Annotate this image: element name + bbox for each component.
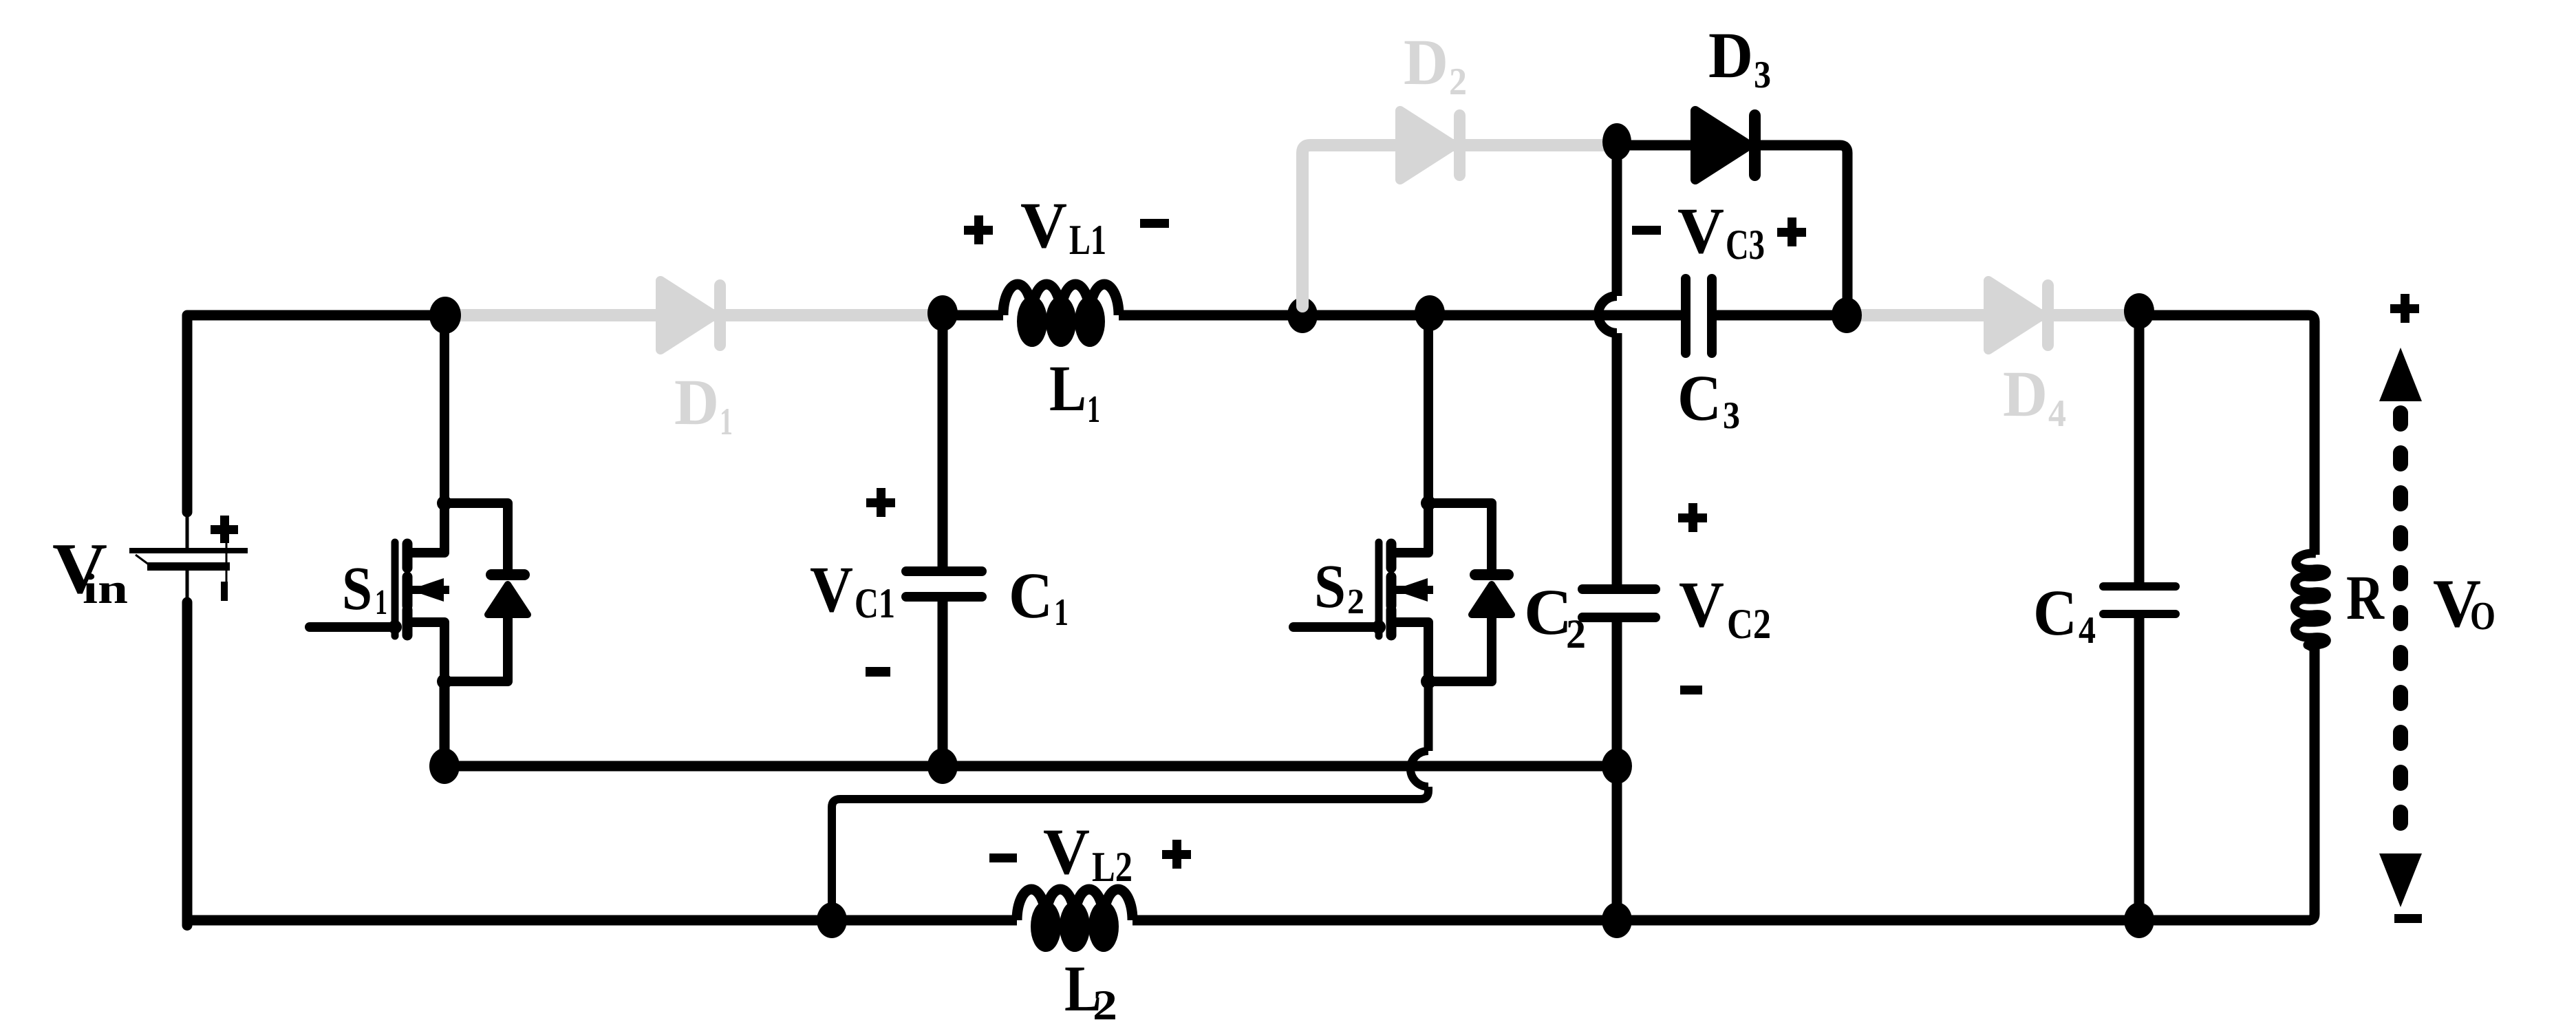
node C4-bottom junction dot [2124,902,2154,938]
wire C1 bottom to middle rail [938,602,948,766]
node S1-source junction dot [429,748,460,784]
label C3 [1677,361,1740,437]
capacitor C1 plate top [901,566,987,576]
battery Vin plate + (long thin) [129,548,248,553]
svg-text:1: 1 [720,401,733,443]
wire node C to node D [1302,310,1430,321]
svg-text:L2: L2 [1092,844,1133,891]
svg-text:2: 2 [1449,61,1467,103]
inductor L1 [1003,284,1119,343]
label L1 [1049,352,1100,431]
svg-text:C: C [1009,559,1053,632]
label D2 [1404,25,1467,103]
wire left vertical below battery [182,602,193,926]
wire middle rail [444,761,1617,772]
capacitor C2 plate top [1578,584,1660,594]
wire bottom rail left segment [182,915,833,926]
wire C2 bottom to middle rail [1612,622,1622,766]
wire R branch bottom corner [2308,647,2315,920]
transistor S1 [310,315,530,689]
label VL1 [964,189,1169,264]
svg-text:D: D [1708,19,1753,92]
node A junction dot [429,297,461,334]
inductor L2 [1017,889,1133,948]
svg-text:C: C [2033,576,2077,649]
node C2-leg bottom-rail junction dot [1602,902,1632,938]
svg-text:C: C [1677,361,1721,434]
battery Vin plate - (short thick) [147,562,230,571]
battery + sign [211,516,238,543]
crossover hop over middle rail [1410,751,1428,787]
wire bottom rail right [1617,915,2310,926]
label S1 [342,555,387,623]
label S2 [1314,553,1364,622]
node F junction dot [2124,293,2154,329]
Vo arrow head top [2379,348,2422,401]
battery - sign [221,582,228,601]
svg-text:1: 1 [1054,591,1069,634]
label C1 minus [866,667,890,677]
node C junction dot [1287,297,1318,333]
resistor R [2295,553,2326,648]
label Vin [52,528,128,613]
wire node D to C3 [1430,310,1681,321]
Vo arrow head bottom [2379,853,2422,907]
transistor S2 [1294,315,1514,689]
wire output top [2139,315,2315,555]
label C1 [1009,559,1069,634]
crossover hop over top rail [1598,296,1617,333]
wire C3 right to node E [1717,310,1847,321]
label D4 [2003,357,2066,435]
diode D3 [1695,109,1761,181]
battery Vin thin leads [136,511,226,604]
svg-text:2: 2 [1347,582,1364,622]
wire D1 gray [445,309,943,321]
svg-text:V: V [1020,189,1067,262]
wire top-left from battery to node A [187,315,445,512]
svg-text:O: O [2470,593,2495,638]
label C1 plus [866,488,895,517]
capacitor C1 plate bottom [901,592,987,602]
svg-text:L: L [1049,352,1086,425]
node C1-bottom junction dot [927,748,958,784]
svg-text:C1: C1 [855,580,895,627]
capacitor C3 plate right [1707,274,1717,358]
wire D3 branch [1617,145,1847,315]
wire D4 gray [1847,309,2139,321]
label VL2 [989,815,1191,891]
label Vo [2433,565,2495,641]
svg-text:D: D [1404,25,1448,98]
label C4 [2033,576,2096,652]
label D3 [1708,19,1771,96]
node B junction dot [927,295,958,331]
svg-text:V: V [1679,568,1724,641]
node D junction dot [1415,295,1445,331]
diode D2 [1400,109,1466,181]
node C2-bottom junction dot [1602,748,1632,784]
label VC3 [1632,194,1806,268]
wire bottom rail mid-right [1133,915,1617,926]
node D2-D3 junction dot [1602,123,1631,160]
svg-text:V: V [810,553,853,626]
svg-text:2: 2 [1566,611,1586,657]
label D1 [674,365,733,443]
svg-text:2: 2 [1093,982,1117,1029]
svg-text:4: 4 [2048,392,2066,435]
wire C4 bottom leg [2134,618,2145,920]
svg-text:S: S [1314,553,1346,621]
svg-text:3: 3 [1723,394,1740,437]
capacitor C2 plate bottom [1578,613,1660,622]
label Vo minus [2394,914,2422,923]
wire node B to L1 [943,310,1003,321]
svg-text:L1: L1 [1069,217,1106,264]
svg-text:C: C [1524,575,1572,648]
label VC2 [1678,503,1771,694]
node L2-left junction dot [817,902,847,938]
svg-text:C3: C3 [1726,222,1765,268]
wire D2 gray riser [1302,145,1617,306]
wire hop to C2 [1612,333,1622,585]
node E junction dot [1832,297,1862,333]
capacitor C4 plate bottom [2099,610,2180,618]
label L2 [1064,952,1117,1029]
diode D4 [1988,279,2054,351]
capacitor C4 plate top [2099,582,2180,591]
svg-text:C2: C2 [1727,601,1771,648]
svg-text:1: 1 [375,583,387,622]
svg-text:V: V [1677,194,1724,267]
wire S2 return to bottom rail [832,787,1428,920]
svg-text:3: 3 [1754,54,1771,96]
wire S2 source down to hop [1424,681,1433,751]
svg-text:1: 1 [1087,388,1100,431]
wire D2D3 node down to hop [1612,142,1622,296]
svg-text:D: D [2003,357,2048,430]
wire C4 top leg [2134,315,2145,583]
wire C2 leg to bottom rail [1612,766,1622,920]
wire L1 to node C [1119,310,1302,321]
wire bottom rail mid-left [832,915,1017,926]
wire node B down to C1 [938,315,948,567]
label C2 [1524,575,1586,657]
Vo dashed arrow line [2393,413,2408,845]
label VC1 [810,553,895,627]
svg-text:V: V [1043,815,1090,888]
diode D1 [661,279,726,351]
svg-text:D: D [674,365,719,438]
svg-text:in: in [83,566,128,613]
capacitor C3 plate left [1681,274,1690,358]
svg-text:4: 4 [2079,609,2096,652]
wire S1 source to middle rail [440,681,450,766]
svg-text:R: R [2346,562,2385,633]
label R [2346,562,2385,633]
label Vo plus [2390,294,2419,323]
svg-text:S: S [342,555,372,623]
